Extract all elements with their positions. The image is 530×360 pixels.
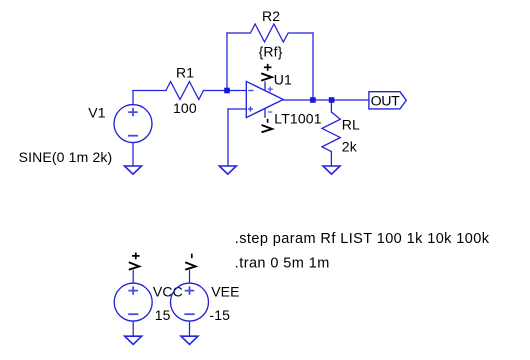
wire R2 right lead: [288, 32, 313, 34]
net flag V+ above VCC: [129, 253, 140, 270]
wire plus input horizontal: [228, 108, 246, 110]
voltage source V1: [114, 105, 152, 143]
wire R2 left lead: [227, 32, 250, 34]
net flag V- below op-amp: [262, 119, 273, 132]
svg-text:U1: U1: [274, 71, 292, 87]
node junction output/RL: [329, 97, 335, 103]
wire V+ flag to VCC: [132, 270, 134, 283]
svg-text:V1: V1: [88, 104, 105, 120]
svg-text:SINE(0 1m 2k): SINE(0 1m 2k): [19, 149, 113, 165]
wire node A up to R2: [226, 33, 228, 91]
svg-text:R1: R1: [176, 64, 194, 80]
net flag V+ above op-amp: [261, 64, 272, 81]
voltage source VCC: [114, 283, 152, 321]
resistor R1: [166, 82, 204, 100]
OUT net flag: [369, 92, 406, 110]
wire R2 down to output: [312, 33, 314, 100]
wire V- flag to VEE: [189, 270, 191, 283]
svg-text:VEE: VEE: [211, 283, 239, 299]
svg-text:-15: -15: [209, 307, 230, 323]
ground below RL: [323, 166, 340, 174]
svg-text:R2: R2: [262, 8, 280, 24]
svg-text:OUT: OUT: [371, 93, 401, 109]
wire R1 to node A: [204, 90, 247, 92]
node junction output/R2: [310, 97, 316, 103]
wire V1 top vertical: [132, 91, 134, 105]
wire node B to RL: [330, 100, 332, 112]
svg-text:2k: 2k: [342, 138, 358, 154]
svg-text:.tran 0 5m 1m: .tran 0 5m 1m: [235, 255, 330, 271]
wire plus input down to ground: [227, 109, 229, 166]
svg-text:LT1001: LT1001: [274, 111, 321, 127]
wire op-amp output to OUT: [283, 99, 369, 101]
svg-text:.step param Rf LIST 100 1k 10k: .step param Rf LIST 100 1k 10k 100k: [235, 231, 490, 247]
svg-text:RL: RL: [342, 117, 360, 133]
svg-text:15: 15: [155, 307, 171, 323]
wire VCC bottom to ground: [132, 321, 134, 336]
resistor R2: [250, 24, 288, 42]
op-amp U1: [246, 81, 283, 118]
node A junction (inverting input): [224, 88, 230, 94]
wire VEE bottom to ground: [189, 321, 191, 336]
ground below VCC: [125, 336, 142, 344]
resistor RL: [322, 112, 340, 152]
wire RL to ground: [330, 152, 332, 166]
svg-text:100: 100: [173, 100, 197, 116]
ground below VEE: [181, 336, 198, 344]
net flag V- above VEE: [185, 254, 195, 270]
wire V1 bottom to ground: [132, 143, 134, 166]
voltage source VEE: [171, 283, 209, 321]
ground below op-amp plus input: [219, 166, 236, 174]
svg-text:VCC: VCC: [153, 283, 183, 299]
ground below V1: [125, 166, 142, 174]
wire V1 to R1: [133, 90, 166, 92]
svg-text:{Rf}: {Rf}: [259, 43, 283, 59]
